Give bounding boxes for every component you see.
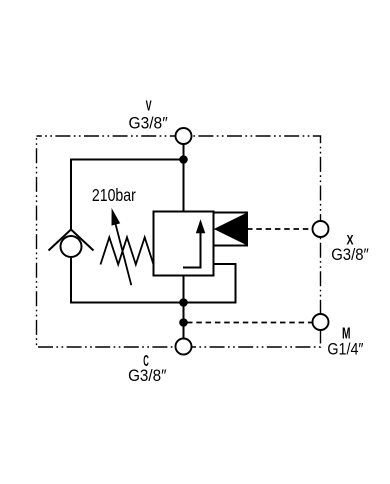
svg-text:G3/8″: G3/8″ [331, 245, 369, 264]
wire: branch left to check valve [71, 160, 184, 231]
pilot line dashed to port X [247, 228, 313, 230]
pilot control triangle [214, 213, 247, 246]
port C circle [176, 339, 192, 355]
junction node below V [179, 155, 188, 164]
svg-text:G3/8″: G3/8″ [129, 114, 168, 133]
junction node at gauge line [179, 318, 188, 327]
adjustment arrow head [112, 208, 121, 226]
check valve seat lines [49, 230, 94, 251]
junction node at bottom wire [179, 298, 188, 307]
svg-text:G3/8″: G3/8″ [128, 366, 166, 385]
pilot head box [214, 213, 248, 246]
wire: drain step from valve right side [214, 264, 236, 304]
check valve ball [61, 236, 82, 257]
wire: valve bottom down to port C [183, 276, 185, 339]
wire: bottom horizontal run [70, 302, 236, 304]
port X circle [313, 221, 329, 237]
enclosure dash-dot border frame [37, 136, 321, 347]
svg-text:210bar: 210bar [92, 185, 136, 205]
flow path arrow inside valve [183, 231, 201, 268]
valve body square [154, 212, 214, 276]
adjustment arrow shaft [115, 220, 132, 285]
svg-text:G1/4″: G1/4″ [327, 340, 363, 359]
port V circle [176, 128, 192, 144]
wire: port V down to valve body [183, 144, 185, 212]
port M circle [313, 314, 329, 330]
adjustable spring zigzag [101, 237, 154, 264]
gauge line dashed to port M [187, 322, 313, 324]
svg-text:V: V [146, 99, 152, 115]
wire: check valve down to bottom wire [70, 257, 72, 304]
